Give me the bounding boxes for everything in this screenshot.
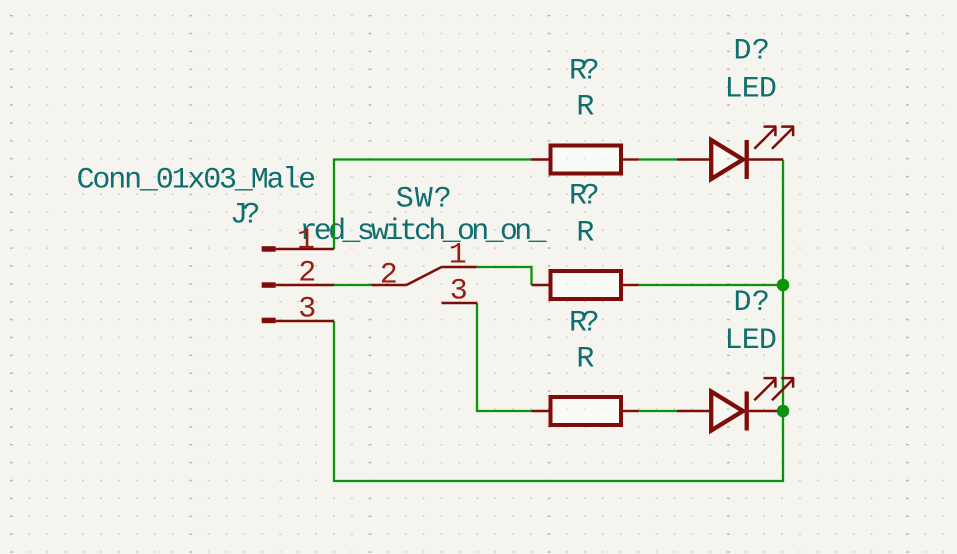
LED D? (bottom): [677, 378, 794, 430]
svg-text:R?: R?: [569, 54, 600, 88]
svg-text:3: 3: [298, 293, 316, 327]
LED D? (top) emission arrow 2: [772, 127, 794, 149]
wire SW pin3 to R3: [477, 303, 532, 411]
svg-text:1: 1: [297, 224, 315, 258]
svg-text:2: 2: [380, 259, 398, 293]
svg-text:1: 1: [449, 239, 467, 273]
svg-text:J?: J?: [230, 198, 260, 232]
switch SW? red_switch_on_on_: [372, 182, 478, 308]
switch SW? pin 3 stub: [442, 302, 478, 304]
connector J? Conn_01x03_Male: [77, 164, 334, 327]
switch SW? lever: [407, 267, 442, 285]
resistor R? (middle): [532, 271, 639, 299]
svg-text:3: 3: [450, 275, 468, 309]
junction at R2 output: [777, 279, 790, 292]
svg-text:R: R: [576, 91, 594, 125]
svg-text:SW?: SW?: [396, 182, 452, 216]
resistor R? (bottom): [532, 397, 639, 425]
svg-text:2: 2: [298, 257, 316, 291]
svg-text:D?: D?: [734, 286, 770, 320]
svg-text:Conn_01x03_Male: Conn_01x03_Male: [77, 164, 317, 198]
svg-text:LED: LED: [725, 324, 777, 358]
wire pin1 to R1 top: [334, 160, 533, 250]
wire pin3 bottom bus and right rail: [334, 160, 783, 482]
LED D? (bottom) emission arrow 2: [772, 378, 794, 400]
svg-text:D?: D?: [734, 34, 770, 68]
LED D? (top) emission arrow 1: [754, 127, 776, 149]
wire R2 to right rail: [639, 284, 784, 286]
resistor R? (top): [532, 146, 639, 174]
LED D? (bottom) emission arrow 1: [754, 378, 776, 400]
junction at D2 cathode: [777, 405, 790, 418]
svg-text:R: R: [576, 342, 594, 376]
wire R3 to D2: [639, 410, 678, 412]
svg-text:R?: R?: [569, 179, 600, 213]
LED D? (top): [677, 127, 794, 179]
svg-text:R?: R?: [569, 306, 600, 340]
svg-text:red_switch_on_on_: red_switch_on_on_: [299, 215, 547, 249]
switch SW? pin 2 stub: [372, 284, 407, 286]
wire R1 to D1: [639, 158, 678, 160]
wire SW pin1 to R2: [477, 267, 532, 285]
connector J? pin 3: [262, 318, 334, 324]
switch SW? pin 1 stub: [442, 266, 477, 268]
svg-text:R: R: [576, 216, 594, 250]
svg-text:LED: LED: [725, 72, 777, 106]
wire pin2 to SW common: [334, 284, 372, 286]
connector J? pin 1: [262, 246, 334, 252]
connector J? pin 2: [262, 282, 334, 288]
